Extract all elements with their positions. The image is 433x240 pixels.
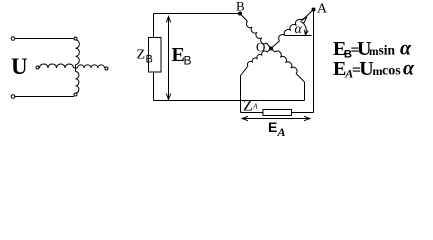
wire left vertical [153, 14, 155, 101]
node O dot [269, 47, 273, 51]
winding B upper arm (B to O) [240, 14, 271, 49]
impedance Z_B box [149, 38, 162, 73]
impedance Z_A box [263, 110, 292, 116]
svg-text:A: A [277, 125, 286, 139]
wire bottom-left [15, 96, 74, 98]
label Z_A [243, 98, 258, 115]
svg-text:Z: Z [243, 98, 253, 115]
svg-text:cos: cos [382, 64, 401, 79]
wire top (B loop) [154, 13, 239, 15]
stator winding lower half [76, 72, 79, 94]
rotor winding left [40, 64, 74, 68]
label Z_B [137, 48, 153, 66]
wire A vertical right [292, 10, 314, 113]
wire right vertical lower (B winding return) [304, 82, 306, 101]
svg-text:Z: Z [137, 48, 146, 63]
terminal stator winding bottom [74, 93, 77, 96]
winding A lower arm (O to bottom-left) [241, 49, 272, 76]
svg-text:B: B [236, 0, 245, 14]
svg-text:A: A [317, 2, 328, 17]
terminal bottom-left [11, 95, 15, 99]
svg-text:U: U [11, 54, 28, 79]
svg-text:m: m [373, 64, 383, 78]
label E_B [172, 44, 192, 68]
axis arrowhead toward A [301, 18, 307, 24]
EMF arrow E_B [166, 17, 170, 100]
terminal top-left [11, 37, 15, 41]
wire A winding left return [241, 76, 264, 113]
angle arc with arrow [301, 22, 309, 36]
node A dot [312, 8, 316, 12]
wire rotor mid [74, 67, 78, 69]
terminal rotor winding left [36, 66, 39, 69]
equation E_A = Um cos a [333, 58, 415, 81]
rotor winding right [78, 65, 105, 68]
wire top-left [15, 38, 74, 40]
svg-text:sin: sin [379, 43, 396, 58]
svg-text:α: α [403, 58, 415, 80]
dimension arrow E_A [242, 116, 310, 120]
svg-text:O: O [256, 40, 265, 55]
angle reference line [285, 35, 312, 37]
terminal rotor winding right [105, 67, 108, 70]
node B dot [238, 12, 242, 16]
wire stator mid [75, 65, 77, 72]
svg-text:B: B [184, 54, 192, 68]
terminal stator winding top [74, 37, 77, 40]
winding A upper arm (O to A) [271, 10, 314, 49]
svg-text:α: α [295, 22, 303, 37]
svg-text:E: E [268, 119, 277, 135]
stator winding upper half [76, 40, 80, 65]
winding B lower arm (O to bottom-right) [271, 49, 305, 83]
equation E_B = Um sin a [333, 38, 412, 61]
svg-text:α: α [400, 38, 412, 60]
label E_A [268, 119, 286, 139]
svg-text:A: A [252, 103, 258, 111]
svg-text:m: m [369, 46, 379, 58]
svg-text:B: B [146, 54, 153, 66]
wire bottom (B loop) [154, 100, 305, 102]
